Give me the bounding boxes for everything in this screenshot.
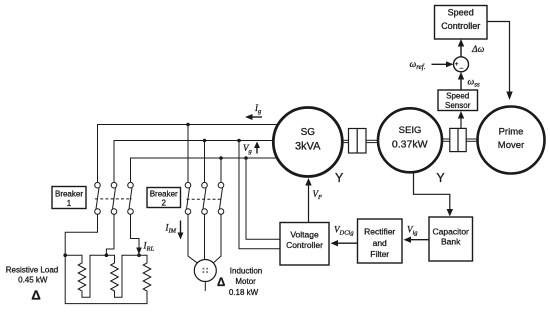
arrow rectifier to voltage controller [331,240,358,246]
current arrow IIM [178,221,184,240]
arrow coupling to speed sensor [458,111,464,128]
arrow summing to speed controller [458,39,464,57]
svg-text:Speed: Speed [446,92,469,101]
svg-text:IIM: IIM [165,223,177,235]
svg-text:Δ: Δ [217,277,225,289]
wire breaker1 A to load node A [65,214,97,255]
breaker 2 pole B [202,182,208,214]
wire SEIG to capacitor bank [414,173,450,212]
node junction bus A to breaker2 [186,123,190,127]
wire bus phase B [114,141,274,183]
svg-text:Controller: Controller [441,21,480,31]
svg-text:Vg: Vg [243,143,253,155]
coupling SEIG-PM [442,128,478,151]
motor shaft [204,282,206,292]
svg-text:+: + [455,61,459,68]
node junction bus B voltage tap [237,139,241,143]
svg-text:Voltage: Voltage [290,230,319,240]
wire voltage tap C to voltage controller [246,158,280,239]
node load C [137,253,141,257]
breaker 1 box [52,187,86,209]
breaker 2 box [147,188,181,208]
svg-text:Bank: Bank [441,237,461,247]
svg-text:Capacitor: Capacitor [433,227,470,237]
svg-text:Motor: Motor [235,277,256,286]
node junction bus B to breaker2 [203,139,207,143]
wire VF voltage controller to SG [308,182,310,223]
wire bus phase C [131,158,278,183]
coupling SG-SEIG [341,129,379,154]
wire bus A down to breaker 2 pole A [187,125,189,183]
arrow capacitor bank to rectifier [404,237,430,243]
summing junction [454,57,469,73]
svg-text:Y: Y [335,171,344,185]
resistor R3 C-A [65,255,151,303]
arrowhead into capacitor bank [447,209,453,217]
wire breaker1 C to load node C [131,214,140,252]
breaker 1 pole A [95,182,101,214]
svg-text:2: 2 [161,199,166,208]
voltage arrow Vg [254,142,260,154]
svg-text:Mover: Mover [498,140,524,151]
svg-text:VF: VF [313,189,324,201]
svg-text:VDCig: VDCig [334,225,354,237]
wire breaker2 C to motor [213,214,221,263]
svg-text:−: − [459,66,463,73]
resistor R2 B-C [106,255,139,297]
wire speed controller to prime mover [487,22,510,93]
generator SG [273,108,342,177]
svg-text:ωref.: ωref. [410,60,426,71]
svg-text:Breaker: Breaker [55,190,83,199]
resistor R1 A-B [65,255,106,297]
svg-text:and: and [373,238,387,248]
svg-text:Prime: Prime [499,127,524,138]
capacitor bank box [429,217,473,261]
breaker 2 pole C [218,182,224,214]
wire voltage tap B to voltage controller [239,141,280,249]
svg-text:0.37kW: 0.37kW [392,138,428,150]
svg-text:Δ: Δ [31,288,40,303]
wire bus phase A [98,125,280,183]
node load A [63,253,67,257]
wire breaker2 A to motor [188,214,198,263]
speed controller box [435,6,488,40]
svg-text:IRL: IRL [143,241,155,253]
svg-text:1: 1 [67,199,72,208]
svg-text:Filter: Filter [370,249,389,259]
svg-text:Y: Y [436,171,445,185]
rectifier and filter box [358,219,403,263]
breaker 1 pole C [128,182,134,214]
arrow omega ref into summing [432,61,454,67]
induction motor M1 [194,260,216,282]
current arrow Ig [245,114,262,120]
speed sensor box [438,90,478,111]
svg-text:3kVA: 3kVA [295,141,321,153]
breaker 2 linkage dashed [187,198,223,200]
svg-text:Sensor: Sensor [445,101,471,110]
breaker 1 pole B [111,182,117,214]
node junction bus C to breaker2 [219,156,223,160]
svg-text:0.45 kW: 0.45 kW [18,276,48,285]
svg-text:Δω: Δω [471,45,485,55]
arrowhead into prime mover [506,92,512,101]
breaker 1 linkage dashed [95,198,132,200]
wire breaker1 B to load node B [106,214,114,255]
breaker 2 pole A [185,182,191,214]
svg-text:Speed: Speed [448,8,474,18]
svg-text:0.18 kW: 0.18 kW [229,288,259,297]
voltage controller box [280,223,329,266]
svg-text:Induction: Induction [230,267,262,276]
arrow omega ss sensor to summing [458,72,464,90]
wire breaker2 B to motor [204,214,206,259]
svg-text:Rectifier: Rectifier [364,227,395,237]
node junction bus C voltage tap [244,156,248,160]
svg-text:Resistive Load: Resistive Load [6,266,58,275]
svg-text:ωss: ωss [468,78,480,89]
arrowhead VF into SG [305,178,311,186]
current arrow IRL [136,248,142,255]
svg-text:Vig: Vig [407,225,418,237]
svg-text:Controller: Controller [286,240,323,250]
node load B [105,253,109,257]
svg-text:SEIG: SEIG [399,125,422,136]
prime mover [478,107,545,174]
generator SEIG [378,108,442,172]
wire bus B down to breaker 2 pole B [204,141,206,183]
svg-text:Ig: Ig [254,103,262,115]
wire bus C down to breaker 2 pole C [220,158,222,183]
svg-text:Breaker: Breaker [150,190,178,199]
svg-text:SG: SG [301,127,316,138]
